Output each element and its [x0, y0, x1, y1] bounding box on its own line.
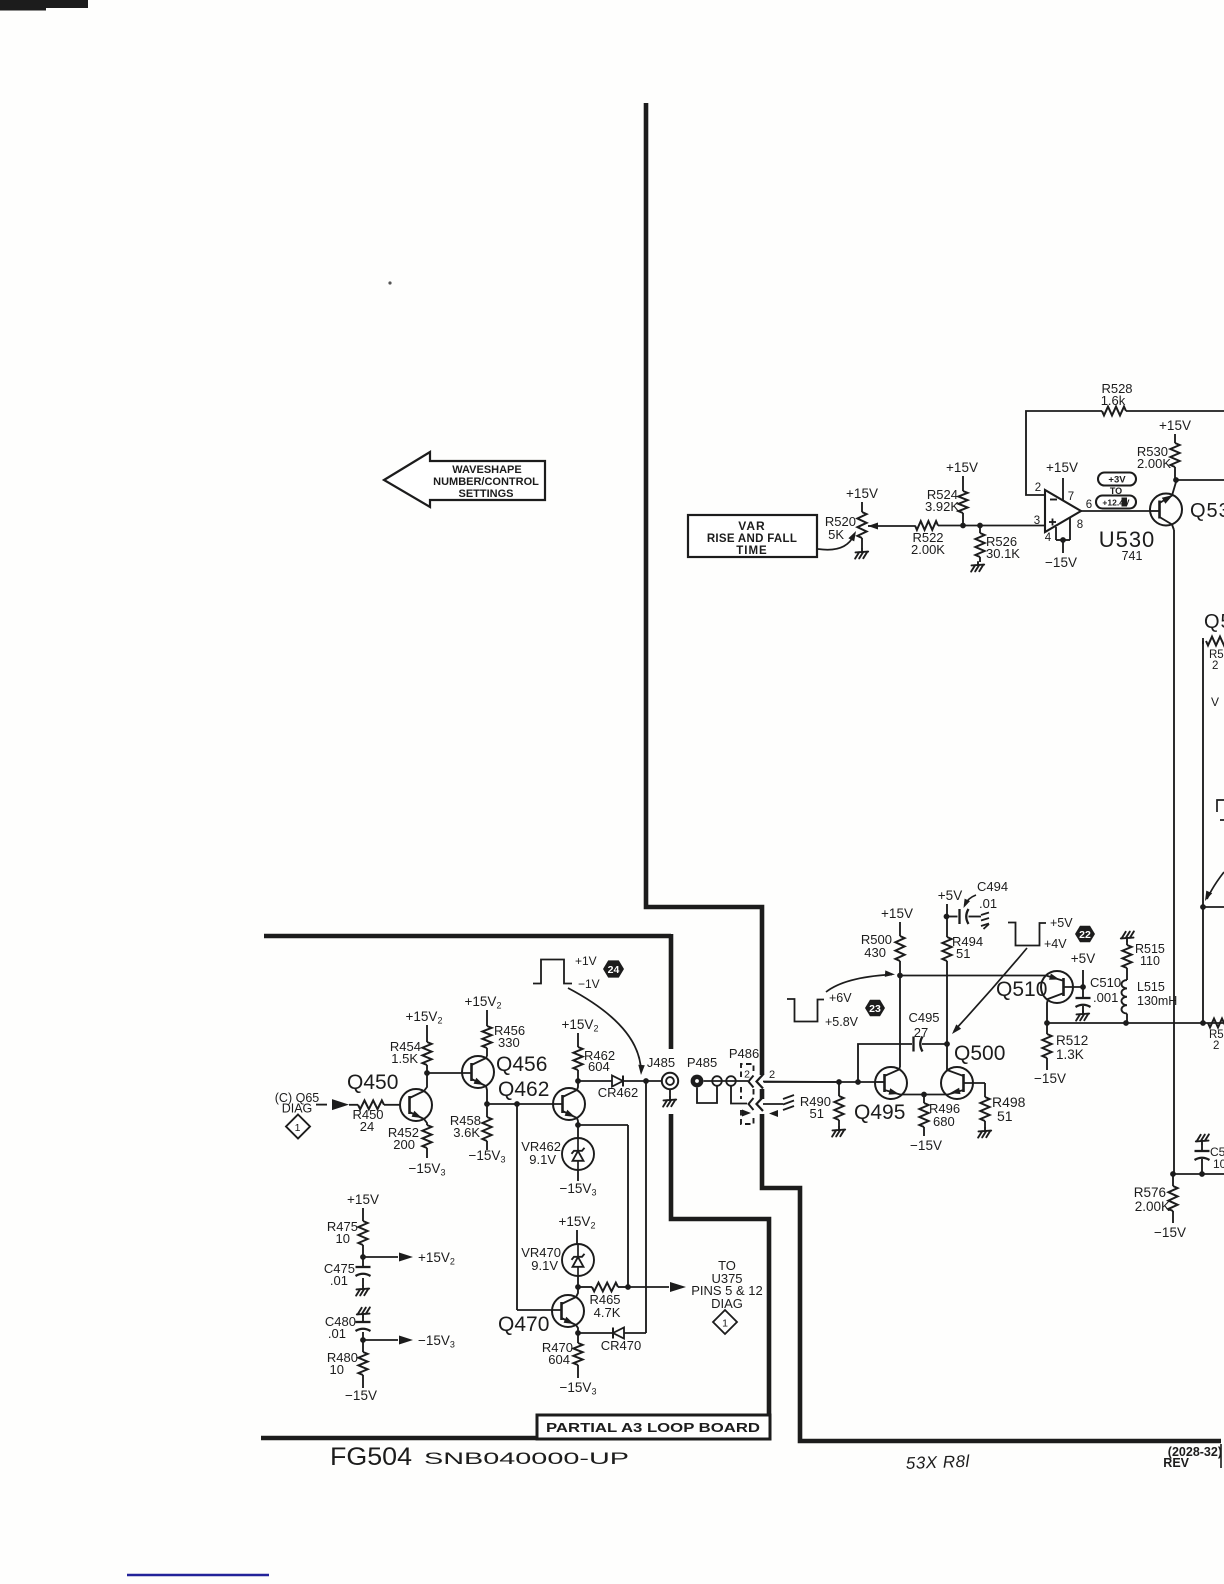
- resistor R458: [486, 1104, 488, 1117]
- svg-text:.01: .01: [979, 896, 997, 911]
- svg-text:+15V2: +15V2: [418, 1250, 455, 1267]
- transistor Q495: [875, 1067, 907, 1099]
- inductor L515: [1126, 968, 1128, 980]
- wire emitter to CR470: [578, 1332, 613, 1334]
- node C5xx junction: [1199, 1171, 1205, 1177]
- diode CR462: [612, 1076, 623, 1087]
- svg-text:+15V2: +15V2: [559, 1214, 596, 1231]
- svg-text:−15V3: −15V3: [409, 1161, 446, 1178]
- resistor R450: [349, 1104, 358, 1106]
- svg-text:6: 6: [1086, 499, 1092, 511]
- wire +5V down: [946, 904, 948, 937]
- resistor R5xx partial on row: [1208, 1019, 1224, 1028]
- hex tag 24: [603, 960, 624, 977]
- svg-text:Q462: Q462: [498, 1078, 549, 1101]
- resistor R465: [578, 1286, 592, 1288]
- waveform fragment right edge: [1217, 800, 1224, 820]
- svg-text:Q470: Q470: [498, 1313, 549, 1336]
- svg-text:+5V: +5V: [1071, 951, 1095, 966]
- hex tag 22: [1075, 926, 1095, 942]
- svg-text:CR470: CR470: [601, 1338, 641, 1353]
- resistor R5xx partial at top right edge: [1206, 637, 1224, 646]
- svg-text:604: 604: [548, 1352, 570, 1367]
- svg-text:VAR: VAR: [738, 519, 765, 533]
- op-amp U530: [1045, 490, 1081, 532]
- capacitor C494: [947, 916, 958, 918]
- arrow -15V3 out: [363, 1339, 398, 1341]
- svg-text:2: 2: [1213, 1040, 1219, 1052]
- connector jack J485: [662, 1073, 678, 1089]
- svg-text:DIAG: DIAG: [282, 1102, 313, 1116]
- wire Q535 emitter long vertical: [1173, 530, 1175, 1174]
- svg-text:.001: .001: [1093, 990, 1118, 1005]
- resistor R530: [1174, 434, 1176, 443]
- svg-text:2.00K: 2.00K: [1135, 1199, 1170, 1214]
- shield symbol (C494): [981, 913, 989, 930]
- resistor R515: [1126, 941, 1128, 945]
- svg-text:3.92K: 3.92K: [925, 499, 959, 514]
- svg-text:RISE AND FALL: RISE AND FALL: [707, 533, 797, 545]
- node junction R526: [977, 523, 983, 529]
- node junction R524/R522: [960, 523, 966, 529]
- svg-text:−15V: −15V: [1154, 1225, 1186, 1240]
- wire output row: [1047, 1022, 1224, 1024]
- arrow +15V2 out: [363, 1256, 398, 1258]
- svg-text:30.1K: 30.1K: [986, 546, 1020, 561]
- svg-text:4.7K: 4.7K: [594, 1305, 621, 1320]
- svg-text:10: 10: [336, 1231, 350, 1246]
- node Q456 emitter junction: [484, 1101, 490, 1107]
- ground above R515: [1121, 931, 1134, 941]
- svg-text:741: 741: [1122, 549, 1143, 563]
- loop board bottom border: [261, 1436, 771, 1441]
- svg-text:WAVESHAPE: WAVESHAPE: [452, 464, 521, 476]
- ground above C5xx (right edge): [1196, 1134, 1209, 1144]
- transistor Q450: [400, 1089, 432, 1121]
- voltage bubble +3V: [1098, 473, 1136, 486]
- diamond ref 1 (U375): [713, 1310, 737, 1334]
- wire x628 vertical: [627, 1125, 629, 1287]
- node Q510 collector junction: [1044, 1020, 1050, 1026]
- thick separator border (main vertical + steps to bottom right): [646, 103, 762, 1075]
- node R465/x628 junction: [625, 1284, 631, 1290]
- wire lower contact to shield: [763, 1103, 783, 1105]
- node C495/R494/Q500 junction: [944, 1041, 950, 1047]
- svg-text:V: V: [1211, 695, 1219, 709]
- ground (R490): [832, 1127, 845, 1137]
- svg-text:−15V: −15V: [1045, 555, 1077, 570]
- svg-text:430: 430: [864, 945, 886, 960]
- svg-text:24: 24: [608, 964, 620, 976]
- node right edge row junction: [1200, 1020, 1206, 1026]
- svg-text:2: 2: [1212, 660, 1218, 672]
- ground above C480: [357, 1307, 370, 1317]
- ground (C475): [356, 1286, 369, 1296]
- resistor R494: [942, 937, 951, 961]
- svg-text:+4V: +4V: [1044, 937, 1067, 951]
- ground (J485): [669, 1089, 671, 1097]
- resistor R490: [838, 1082, 840, 1096]
- svg-text:C510: C510: [1090, 975, 1121, 990]
- svg-text:Q450: Q450: [347, 1071, 398, 1094]
- svg-text:Q510: Q510: [996, 978, 1047, 1001]
- wire node2 to op-amp +input: [980, 525, 1045, 527]
- svg-text:PARTIAL A3 LOOP BOARD: PARTIAL A3 LOOP BOARD: [546, 1421, 760, 1435]
- loop board top border: [264, 934, 671, 939]
- scan artifact bar top-left: [0, 0, 88, 8]
- loop board right border lower + corner step: [671, 1114, 769, 1417]
- polarity triangle right: [769, 1110, 778, 1117]
- wire R465 to arrow: [628, 1286, 669, 1288]
- svg-text:Q495: Q495: [854, 1101, 905, 1124]
- svg-text:2: 2: [1035, 482, 1041, 494]
- svg-text:1.6k: 1.6k: [1101, 393, 1126, 408]
- contact chevrons lower: [749, 1098, 754, 1110]
- svg-text:+6V: +6V: [829, 991, 852, 1005]
- svg-text:+15V: +15V: [1159, 418, 1191, 433]
- node C480/R480 junction: [360, 1337, 366, 1343]
- wire right edge vertical: [1202, 641, 1204, 1023]
- wire Q456 to Q462 base: [487, 1103, 563, 1105]
- svg-text:−15V: −15V: [910, 1138, 942, 1153]
- resistor R454: [426, 1025, 428, 1042]
- resistor R470: [577, 1333, 579, 1343]
- svg-text:FG504: FG504: [330, 1443, 412, 1471]
- svg-text:200: 200: [393, 1137, 415, 1152]
- svg-text:Q500: Q500: [954, 1042, 1005, 1065]
- svg-text:TIME: TIME: [736, 545, 767, 557]
- svg-text:Q5: Q5: [1204, 611, 1224, 633]
- svg-text:1.3K: 1.3K: [1056, 1047, 1084, 1062]
- arrow into node (right edge): [1207, 872, 1224, 899]
- node Q470 drop junction: [514, 1101, 520, 1107]
- pin 4 lead: [1055, 527, 1057, 540]
- transistor Q510: [1041, 971, 1073, 1003]
- wire node to CR462: [578, 1080, 612, 1082]
- waveform +5V/+4V: [1008, 923, 1046, 946]
- svg-text:−15V: −15V: [345, 1388, 377, 1403]
- wire R522 to node: [938, 525, 963, 527]
- svg-text:1: 1: [295, 1122, 301, 1134]
- svg-text:+15V2: +15V2: [406, 1009, 443, 1026]
- connector plug P485: [691, 1075, 704, 1088]
- node R496 junction: [921, 1092, 927, 1098]
- svg-text:+5V: +5V: [1050, 916, 1073, 930]
- capacitor C480: [362, 1317, 364, 1321]
- svg-text:.01: .01: [328, 1326, 346, 1341]
- wire P485 to chevron: [704, 1080, 749, 1082]
- resistor R452: [422, 1125, 431, 1148]
- resistor R512: [1046, 1023, 1048, 1034]
- svg-text:10: 10: [330, 1362, 344, 1377]
- resistor R496: [923, 1094, 925, 1103]
- resistor R462: [577, 1033, 579, 1047]
- svg-text:+15V: +15V: [881, 906, 913, 921]
- transistor Q470: [552, 1295, 584, 1327]
- svg-text:4: 4: [1045, 532, 1052, 544]
- wire node to J485: [646, 1080, 663, 1082]
- shield spring symbol: [783, 1095, 794, 1110]
- svg-text:680: 680: [933, 1114, 955, 1129]
- svg-text:−15V3: −15V3: [560, 1181, 597, 1198]
- pin 8 lead: [1069, 518, 1071, 540]
- svg-text:.01: .01: [330, 1273, 348, 1288]
- arrow waveform24 to J485 node: [568, 988, 641, 1071]
- capacitor C5xx partial: [1201, 1144, 1203, 1150]
- wire pinB loop to lower contact: [731, 1086, 747, 1104]
- capacitor C510: [1082, 987, 1084, 997]
- PARTIAL A3 LOOP BOARD box: [537, 1415, 770, 1439]
- svg-text:+15V2: +15V2: [562, 1017, 599, 1034]
- resistor R526: [979, 525, 981, 533]
- svg-text:23: 23: [869, 1003, 881, 1015]
- node L515 junction: [1123, 1020, 1129, 1026]
- connector pin circle B: [726, 1076, 736, 1086]
- svg-text:J485: J485: [647, 1055, 675, 1070]
- svg-text:P485: P485: [687, 1055, 717, 1070]
- svg-text:3.6K: 3.6K: [453, 1125, 480, 1140]
- svg-text:2: 2: [769, 1069, 775, 1081]
- wire Q450 node to Q456 base: [427, 1072, 472, 1074]
- wire R500 node to Q510: [900, 975, 1046, 977]
- node R462/CR462/Q462C junction: [575, 1078, 581, 1084]
- connector pin circle A: [712, 1076, 722, 1086]
- arrow waveform23 to R500 node: [826, 975, 892, 993]
- wire +5V to base node: [1082, 970, 1084, 987]
- svg-text:51: 51: [997, 1108, 1013, 1124]
- svg-text:3: 3: [1034, 515, 1040, 527]
- node pin4/8 junction: [1060, 537, 1066, 543]
- node Q470 emitter junction: [575, 1330, 581, 1336]
- svg-text:SNB040000-UP: SNB040000-UP: [424, 1449, 629, 1468]
- arrow waveform22 to C495 node: [954, 948, 1027, 1031]
- node VR470/R465 junction: [575, 1284, 581, 1290]
- waveform +1V/-1V: [533, 960, 572, 984]
- capacitor C475: [362, 1257, 364, 1266]
- svg-text:51: 51: [810, 1106, 824, 1121]
- svg-text:NUMBER/CONTROL: NUMBER/CONTROL: [433, 476, 539, 488]
- node R500 junction: [897, 973, 903, 979]
- diamond ref 1 (Q65): [286, 1115, 310, 1139]
- loop board right border upper: [669, 934, 674, 1049]
- wire Q495 emitter to node: [906, 1094, 941, 1096]
- wire R576 row: [1173, 1173, 1224, 1175]
- svg-text:10: 10: [1213, 1157, 1224, 1171]
- adjust arrow VAR box to R520: [818, 535, 854, 550]
- resistor R475: [362, 1208, 364, 1221]
- svg-text:+5V: +5V: [938, 888, 962, 903]
- wire Q495 collector up: [899, 975, 901, 1067]
- svg-text:5K: 5K: [828, 527, 844, 542]
- svg-text:+15V: +15V: [347, 1192, 379, 1207]
- transistor Q535: [1150, 494, 1182, 526]
- svg-text:22: 22: [1079, 929, 1091, 941]
- contact chevrons upper: [749, 1076, 754, 1088]
- node R490 junction: [836, 1079, 842, 1085]
- scan speck: [388, 281, 391, 284]
- node R475/C475 junction: [360, 1254, 366, 1260]
- svg-text:Q535: Q535: [1190, 500, 1224, 522]
- svg-text:−15V: −15V: [1034, 1071, 1066, 1086]
- VAR RISE AND FALL TIME box: [688, 515, 817, 557]
- ground (R520): [855, 549, 868, 559]
- node R530/collector junction: [1173, 477, 1179, 483]
- pin 6 output wire: [1081, 510, 1150, 512]
- wire upper contact to R490: [763, 1081, 839, 1084]
- node right edge junction: [1200, 904, 1206, 910]
- ground (R526): [971, 562, 984, 572]
- svg-text:604: 604: [588, 1059, 610, 1074]
- blue pen line bottom: [127, 1574, 269, 1577]
- svg-text:7: 7: [1068, 491, 1074, 503]
- svg-text:R512: R512: [1056, 1033, 1088, 1048]
- svg-text:C494: C494: [977, 879, 1008, 894]
- resistor R456: [486, 1010, 488, 1026]
- connector P486 dashed outline: [741, 1064, 754, 1124]
- svg-text:1: 1: [722, 1318, 728, 1330]
- wire CR462 to node: [623, 1080, 646, 1082]
- resistor R576: [1172, 1174, 1174, 1186]
- polarity triangle left: [742, 1110, 751, 1117]
- svg-text:C495: C495: [908, 1010, 939, 1025]
- svg-text:DIAG: DIAG: [711, 1296, 743, 1311]
- hex tag 23: [865, 1000, 885, 1016]
- transistor Q456: [462, 1056, 494, 1088]
- wire Q470 base drop: [516, 1104, 518, 1310]
- svg-text:130mH: 130mH: [1137, 994, 1177, 1008]
- potentiometer R520 5K: [861, 502, 863, 512]
- svg-text:−1V: −1V: [578, 977, 600, 991]
- wire C495 branch: [858, 1044, 912, 1082]
- diode CR470: [612, 1328, 614, 1339]
- svg-text:27: 27: [914, 1025, 928, 1040]
- svg-text:+1V: +1V: [575, 954, 597, 968]
- wire base line from P486: [764, 1081, 876, 1083]
- waveshape number/control settings arrow: [384, 452, 545, 507]
- svg-text:330: 330: [498, 1035, 520, 1050]
- svg-text:+3V: +3V: [1108, 475, 1126, 486]
- transistor Q462: [553, 1088, 585, 1120]
- transistor Q500: [941, 1067, 973, 1099]
- svg-text:53X R8l: 53X R8l: [905, 1452, 970, 1473]
- wire Q462emitter branch: [578, 1124, 628, 1126]
- svg-text:2: 2: [744, 1069, 750, 1081]
- svg-text:R576: R576: [1134, 1185, 1166, 1200]
- waveform +6V/+5.8V: [787, 999, 824, 1022]
- resistor R528: [1102, 407, 1126, 416]
- resistor R522: [915, 521, 938, 530]
- node Q510 base junction: [1080, 984, 1086, 990]
- wire feedback vertical x646: [645, 1081, 647, 1333]
- ground (R498): [978, 1128, 991, 1138]
- svg-text:REV: REV: [1163, 1456, 1189, 1470]
- resistor R498: [984, 1083, 986, 1097]
- node C495 drop junction: [855, 1079, 861, 1085]
- resistor R500: [899, 922, 901, 936]
- ground (C510): [1076, 1011, 1089, 1021]
- pin 7 lead: [1062, 478, 1064, 500]
- svg-text:SETTINGS: SETTINGS: [458, 488, 513, 500]
- zener VR470: [576, 1230, 578, 1244]
- svg-text:+15V: +15V: [1046, 460, 1078, 475]
- node R576 junction: [1170, 1171, 1176, 1177]
- svg-text:2.00K: 2.00K: [911, 542, 945, 557]
- input arrow: [316, 1104, 327, 1106]
- svg-text:9.1V: 9.1V: [529, 1152, 556, 1167]
- svg-text:L515: L515: [1137, 980, 1165, 994]
- svg-text:51: 51: [956, 946, 970, 961]
- svg-text:−15V3: −15V3: [560, 1380, 597, 1397]
- wire P485 shield loop: [697, 1086, 717, 1103]
- wire junction to right edge: [1176, 479, 1224, 481]
- wire wiper to R522: [877, 525, 915, 527]
- svg-text:110: 110: [1140, 954, 1160, 968]
- node Q462 emitter junction: [575, 1122, 581, 1128]
- resistor R524: [962, 476, 964, 491]
- svg-text:+15V: +15V: [846, 486, 878, 501]
- svg-text:1.5K: 1.5K: [391, 1051, 418, 1066]
- svg-text:2.00K: 2.00K: [1137, 456, 1171, 471]
- resistor R480: [362, 1340, 364, 1352]
- capacitor C495: [912, 1037, 914, 1052]
- svg-text:−15V3: −15V3: [469, 1148, 506, 1165]
- svg-text:+15V2: +15V2: [465, 994, 502, 1011]
- svg-text:CR462: CR462: [598, 1085, 638, 1100]
- svg-text:+15V: +15V: [946, 460, 978, 475]
- wire CR470 to feedback: [624, 1332, 646, 1334]
- svg-text:P486: P486: [729, 1046, 759, 1061]
- node feedback wire from R528 to pin2: [1026, 411, 1102, 495]
- svg-text:−15V3: −15V3: [418, 1333, 455, 1350]
- svg-text:24: 24: [360, 1119, 374, 1134]
- voltage bubble +12.4V: [1096, 496, 1136, 509]
- arrow to U375: [670, 1282, 686, 1292]
- svg-text:9.1V: 9.1V: [531, 1258, 558, 1273]
- svg-text:8: 8: [1077, 519, 1083, 531]
- svg-text:Q456: Q456: [496, 1053, 547, 1076]
- zener VR462: [577, 1125, 579, 1138]
- svg-text:+5.8V: +5.8V: [825, 1015, 859, 1029]
- node R454/Q450C/Q456B junction: [424, 1070, 430, 1076]
- wire node to node2: [963, 525, 980, 527]
- node CR462/J485 junction: [643, 1078, 649, 1084]
